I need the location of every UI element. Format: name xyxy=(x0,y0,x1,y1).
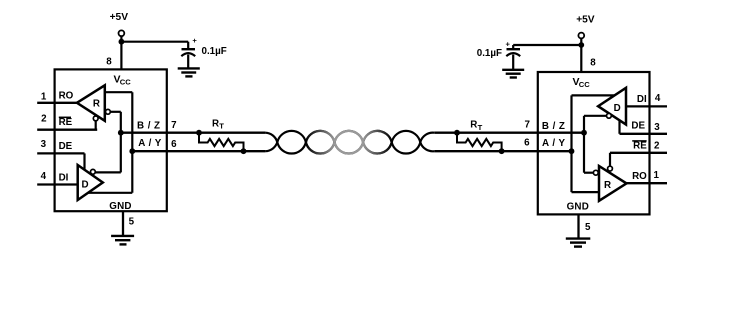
pin 4 DI wire (right) xyxy=(626,105,667,107)
pin 2 RE wire (left) xyxy=(37,129,97,131)
wire pin8 vertical (right) xyxy=(580,38,582,72)
svg-text:1: 1 xyxy=(41,91,47,102)
wire B/Z vertical to receiver bubble (right) xyxy=(584,172,593,174)
driver D triangle (right) xyxy=(598,88,626,125)
ground symbol capacitor (right) xyxy=(502,69,524,71)
B/Z bus line (right) xyxy=(434,132,584,134)
svg-text:2: 2 xyxy=(41,114,47,125)
pin 4 DI wire (left) xyxy=(37,183,77,185)
vertical wire B/Z net (left) xyxy=(120,112,122,173)
svg-text:DI: DI xyxy=(637,94,647,105)
wire driver bubble to B/Z vertical (right) xyxy=(584,115,607,117)
svg-text:D: D xyxy=(81,180,88,191)
svg-text:T: T xyxy=(219,122,224,131)
driver inverting output bubble (right) xyxy=(607,113,612,118)
ground symbol capacitor (left) xyxy=(178,67,200,69)
svg-text:R: R xyxy=(604,180,611,191)
receiver enable bubble RE (right) xyxy=(608,166,613,171)
receiver input bubble (left) xyxy=(106,109,111,114)
svg-text:B / Z: B / Z xyxy=(542,121,565,132)
svg-text:T: T xyxy=(478,123,483,132)
svg-text:6: 6 xyxy=(524,138,530,149)
svg-text:RO: RO xyxy=(59,91,74,102)
pin 5 GND stub (left) xyxy=(122,211,124,236)
svg-text:3: 3 xyxy=(654,122,660,133)
twisted pair cable xyxy=(265,131,434,154)
junction dot supply (right) xyxy=(578,42,584,48)
svg-text:B / Z: B / Z xyxy=(137,120,160,131)
svg-text:GND: GND xyxy=(109,201,131,212)
wire DE down to driver (left) xyxy=(83,153,85,170)
junction dot B/Z (right) xyxy=(581,130,587,136)
pin 3 DE wire (left) xyxy=(37,152,84,154)
svg-text:7: 7 xyxy=(171,120,177,131)
svg-text:2: 2 xyxy=(654,140,660,151)
termination resistor RT (left) xyxy=(196,130,202,136)
svg-text:5: 5 xyxy=(129,217,135,228)
ground symbol IC (left) xyxy=(111,235,134,237)
svg-text:A / Y: A / Y xyxy=(138,138,161,149)
wire RE to receiver bubble (left) xyxy=(95,121,97,130)
svg-text:4: 4 xyxy=(41,171,47,182)
A/Y bus line (left) xyxy=(132,150,265,152)
pin 5 GND stub (right) xyxy=(577,214,579,238)
svg-text:+5V: +5V xyxy=(576,15,595,26)
pin 3 DE wire (right) xyxy=(620,133,668,135)
receiver R triangle (left) xyxy=(77,85,105,121)
svg-text:8: 8 xyxy=(106,57,112,68)
junction dot B/Z (left) xyxy=(118,130,124,136)
svg-text:R: R xyxy=(212,118,219,129)
junction dot A/Y (right) xyxy=(569,148,575,154)
svg-text:+5V: +5V xyxy=(110,12,129,23)
wire DE up to driver (right) xyxy=(618,120,620,134)
capacitor C1 0.1uF (left) xyxy=(187,42,189,50)
pin 1 RO wire (right) xyxy=(627,182,668,184)
svg-text:1: 1 xyxy=(653,170,659,181)
A/Y bus line (right) xyxy=(434,150,571,152)
wire receiver top input to A/Y vertical (left) xyxy=(105,91,133,93)
svg-text:GND: GND xyxy=(567,202,589,213)
left transceiver box U1 xyxy=(55,69,167,211)
vertical wire A/Y net (left) xyxy=(131,92,133,193)
+5V terminal circle (left) xyxy=(119,30,125,36)
wire supply to capacitor (right) xyxy=(513,44,581,46)
svg-text:3: 3 xyxy=(41,139,47,150)
wire A/Y vertical to driver top edge (right) xyxy=(572,94,615,96)
svg-text:CC: CC xyxy=(579,80,590,89)
wire A/Y vertical to receiver bottom edge (right) xyxy=(572,191,613,193)
receiver input bubble (right) xyxy=(593,170,598,175)
wire supply to capacitor (left) xyxy=(121,41,188,43)
svg-text:R: R xyxy=(93,99,100,110)
wire driver output to A/Y vertical (left) xyxy=(88,192,132,194)
wire receiver bubble to B/Z vertical (left) xyxy=(110,111,121,113)
pin 2 RE wire (right) xyxy=(610,152,667,154)
svg-text:RE: RE xyxy=(59,117,73,128)
B/Z bus line (left) xyxy=(121,132,266,134)
pin 1 RO wire (left) xyxy=(37,102,78,104)
+5V terminal circle (right) xyxy=(578,33,584,39)
svg-text:A / Y: A / Y xyxy=(542,138,565,149)
receiver R triangle (right) xyxy=(599,166,627,201)
svg-text:DI: DI xyxy=(59,172,69,183)
svg-text:4: 4 xyxy=(655,93,661,104)
svg-text:CC: CC xyxy=(120,77,131,86)
junction dot supply (left) xyxy=(119,39,125,45)
twisted pair faded middle section xyxy=(306,131,335,142)
svg-text:D: D xyxy=(614,103,621,114)
capacitor C2 0.1uF (right) xyxy=(512,45,514,49)
svg-text:RE: RE xyxy=(633,141,647,152)
ground symbol IC (right) xyxy=(566,237,591,239)
svg-text:+: + xyxy=(192,36,197,45)
right transceiver box U2 xyxy=(538,72,650,214)
svg-text:DE: DE xyxy=(59,141,73,152)
vertical wire A/Y net (right) xyxy=(570,95,572,192)
svg-text:8: 8 xyxy=(590,58,596,69)
wire RE to receiver bubble (right) xyxy=(609,153,611,166)
svg-text:6: 6 xyxy=(171,139,177,150)
wire B/Z vertical to driver bubble (left) xyxy=(96,171,121,173)
svg-text:0.1µF: 0.1µF xyxy=(202,46,227,57)
driver inverting output bubble (left) xyxy=(91,169,96,174)
termination resistor RT (right) xyxy=(454,130,460,136)
driver D triangle (left) xyxy=(78,165,103,200)
junction dot A/Y (left) xyxy=(129,148,135,154)
wire pin8 vertical (left) xyxy=(120,36,122,69)
receiver enable bubble RE (left) xyxy=(93,116,98,121)
svg-text:0.1µF: 0.1µF xyxy=(477,48,502,59)
vertical wire B/Z net (right) xyxy=(583,116,585,173)
svg-text:+: + xyxy=(505,40,510,49)
svg-text:R: R xyxy=(470,120,477,131)
svg-text:7: 7 xyxy=(524,120,530,131)
svg-text:DE: DE xyxy=(631,121,645,132)
svg-text:5: 5 xyxy=(585,222,591,233)
svg-text:RO: RO xyxy=(632,171,647,182)
